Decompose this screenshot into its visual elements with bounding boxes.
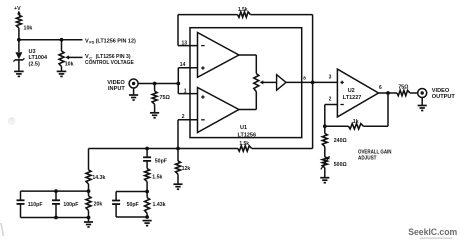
ground (video input) xyxy=(129,94,138,96)
node junction 75ohm tap xyxy=(153,82,157,86)
wire U2 output xyxy=(379,92,397,94)
capacitor 100pF xyxy=(55,191,57,200)
op-amp U2 LT1227 xyxy=(337,69,378,117)
svg-text:50pF: 50pF xyxy=(127,202,139,208)
wire A2 output to fader pot xyxy=(239,109,256,111)
ground (below 10k pot) xyxy=(57,70,67,72)
svg-text:INPUT: INPUT xyxy=(108,86,125,92)
resistor 1.43k to ground xyxy=(145,198,150,214)
svg-text:1.5k: 1.5k xyxy=(238,7,248,13)
svg-text:CONTROL VOLTAGE: CONTROL VOLTAGE xyxy=(85,60,134,66)
svg-text:OVERALL GAIN: OVERALL GAIN xyxy=(358,150,392,156)
svg-text:20k: 20k xyxy=(94,202,103,208)
potentiometer 500ohm gain adjust xyxy=(322,157,327,168)
ground (below 1.43k) xyxy=(143,220,152,222)
capacitor 50pF (upper) xyxy=(146,149,148,158)
svg-text:U2: U2 xyxy=(348,88,355,94)
IC U1 LT1256 package outline xyxy=(190,28,302,138)
node junction 14.3k/20k/caps xyxy=(87,189,91,193)
node junction gain divider xyxy=(323,124,327,128)
resistor R 10k (from +V) xyxy=(16,15,21,28)
svg-text:(2.5): (2.5) xyxy=(29,61,40,67)
diode U3 LT1004 zener reference xyxy=(18,40,20,52)
wire bottom feedback to output node xyxy=(252,148,313,150)
resistor 20k to ground xyxy=(86,196,91,211)
wire caps bottom rail xyxy=(21,217,89,219)
ground (below 12k) xyxy=(173,183,182,185)
wire pin 14 input xyxy=(178,67,197,69)
wire bottom rail to 14.3k chain xyxy=(88,149,90,170)
scan smudge left edge xyxy=(1,223,4,236)
ground (below 20k) xyxy=(84,221,93,223)
svg-text:U1: U1 xyxy=(240,125,247,131)
node junction U2 output feedback xyxy=(386,91,390,95)
resistor 1.5k top feedback xyxy=(238,12,251,17)
svg-text:LT1227: LT1227 xyxy=(343,95,362,101)
resistor 1.5k bottom feedback xyxy=(238,146,252,151)
svg-text:1k: 1k xyxy=(353,119,359,125)
wire feedback top from pin 13 xyxy=(177,15,179,46)
node junction at 10k pot top xyxy=(60,38,64,42)
svg-text:75Ω: 75Ω xyxy=(398,84,409,90)
node junction video input to + inputs xyxy=(176,82,180,86)
svg-text:240Ω: 240Ω xyxy=(334,138,347,144)
resistor 1k feedback xyxy=(349,124,364,129)
ground (video output) xyxy=(418,105,427,107)
resistor 75ohm input termination xyxy=(154,84,156,92)
wire joining pins 14 and 1 xyxy=(177,68,179,94)
resistor 14.3k xyxy=(86,170,91,184)
wire pin 13 input xyxy=(178,45,198,47)
svg-text:13: 13 xyxy=(182,40,188,46)
svg-text:1: 1 xyxy=(184,88,187,94)
capacitor 110pF xyxy=(20,191,22,200)
svg-text:FS: FS xyxy=(89,40,94,45)
svg-text:14.3k: 14.3k xyxy=(92,175,105,181)
potentiometer internal fader xyxy=(254,74,259,92)
svg-text:ADJUST: ADJUST xyxy=(358,156,377,162)
buffer amplifier (output stage of U1) xyxy=(277,75,286,91)
svg-text:1.5k: 1.5k xyxy=(239,141,249,147)
resistor 75ohm output xyxy=(397,90,410,95)
node junction at +V resistor bottom xyxy=(17,38,21,42)
wire video input to amps xyxy=(138,83,178,85)
resistor 12k to ground xyxy=(177,149,179,162)
ground (below 75ohm) xyxy=(150,112,159,114)
svg-text:+V: +V xyxy=(14,6,21,12)
op-amp A2 (bottom amplifier) xyxy=(198,88,239,133)
svg-text:2: 2 xyxy=(182,114,185,120)
node junction 1.5k/1.43k/50pF xyxy=(145,190,149,194)
node junction 100pF top xyxy=(54,189,58,193)
svg-text:1.43k: 1.43k xyxy=(153,202,166,208)
wire output connector shield xyxy=(421,98,423,106)
wire caps top rail xyxy=(21,190,89,192)
wire buffer to pin 8 output xyxy=(286,81,337,83)
svg-text:8: 8 xyxy=(303,76,306,81)
op-amp A1 (top amplifier) xyxy=(198,33,239,78)
fader wiper arrow to buffer xyxy=(260,80,264,84)
node junction 1.43k bottom xyxy=(145,215,149,219)
svg-text:100pF: 100pF xyxy=(63,202,78,208)
node junction pin2/12k on bottom rail xyxy=(176,147,180,151)
svg-text:(LT1256 PIN 12): (LT1256 PIN 12) xyxy=(96,38,136,44)
wire main VFS node horizontal xyxy=(19,39,83,41)
node junction 50pF chain on bottom rail xyxy=(145,147,149,151)
resistor 1.5k (series with 50pF) xyxy=(146,161,148,169)
wire 1k to inverting input xyxy=(325,125,349,127)
node junction 20k bottom xyxy=(87,216,91,220)
wire top feedback to output node xyxy=(250,14,312,16)
svg-text:75Ω: 75Ω xyxy=(160,95,171,101)
wire to output connector xyxy=(410,92,418,94)
svg-text:1.5k: 1.5k xyxy=(152,175,162,181)
svg-text:6: 6 xyxy=(379,85,382,91)
wire U2 feedback down xyxy=(387,93,389,126)
wire pin 1 input xyxy=(178,93,197,95)
wire pin 2 input xyxy=(178,119,198,121)
svg-text:SeekIC.com: SeekIC.com xyxy=(408,227,457,237)
svg-text:VIDEO: VIDEO xyxy=(432,88,450,94)
power +V supply arrow xyxy=(17,11,21,15)
svg-text:14: 14 xyxy=(180,62,186,68)
faint watermark second line xyxy=(420,237,452,239)
ground (below U3) xyxy=(14,70,24,72)
ground (below 500 ohm) xyxy=(320,177,329,179)
potentiometer 10k (control voltage) xyxy=(61,40,63,51)
connector J2 video output xyxy=(418,89,427,98)
wire connector shield to ground xyxy=(133,88,135,95)
svg-text:3: 3 xyxy=(329,74,332,80)
node junction 100pF bottom xyxy=(54,216,58,220)
svg-text:LT1256: LT1256 xyxy=(238,132,257,138)
capacitor 50pF (parallel 1.43k) xyxy=(116,191,147,193)
wiper arrow VC xyxy=(69,56,83,58)
wire bottom feedback rail xyxy=(89,148,238,150)
svg-text:2: 2 xyxy=(329,97,332,103)
svg-text:10k: 10k xyxy=(24,25,33,31)
node junction output feedback xyxy=(311,81,315,85)
resistor 240ohm xyxy=(324,126,326,133)
svg-text:LT1004: LT1004 xyxy=(29,55,48,61)
svg-text:500Ω: 500Ω xyxy=(334,162,347,168)
wire pin 2 down to bottom feedback xyxy=(177,120,179,149)
svg-text:50pF: 50pF xyxy=(155,159,167,165)
svg-text:110pF: 110pF xyxy=(28,202,43,208)
svg-text:12k: 12k xyxy=(182,166,191,172)
connector J1 video input xyxy=(129,79,138,88)
svg-text:10k: 10k xyxy=(65,62,74,68)
wire A1 output to fader pot xyxy=(239,54,256,56)
svg-text:OUTPUT: OUTPUT xyxy=(432,94,456,100)
